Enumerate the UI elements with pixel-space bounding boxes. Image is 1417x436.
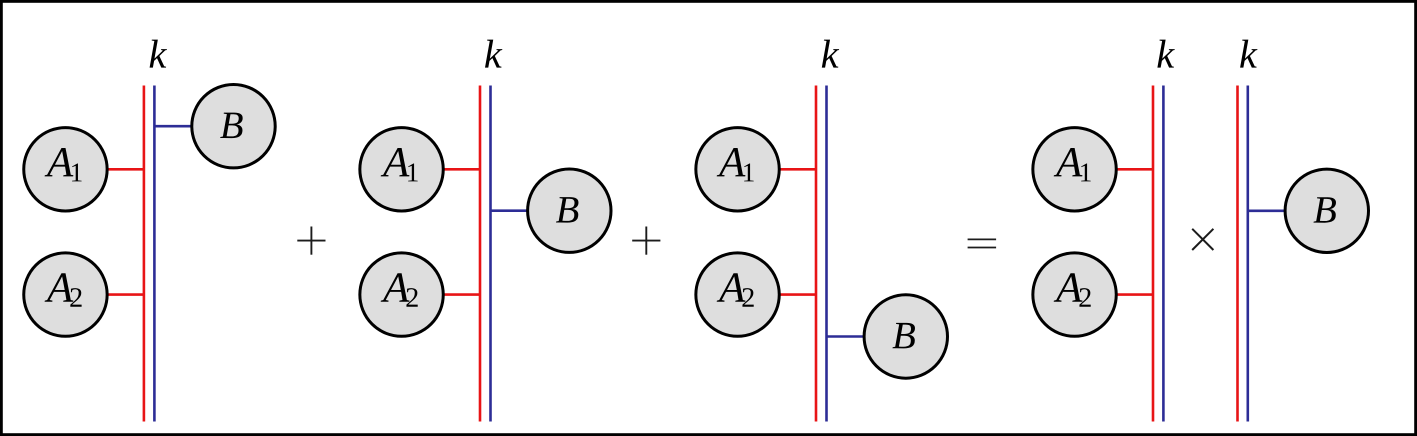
node B D4b — [1285, 169, 1368, 252]
node A1 D1 — [24, 128, 107, 211]
node A2 D3 — [696, 253, 779, 336]
label A2 D1 — [45, 273, 74, 301]
wire: blue stub B to bond D3 — [827, 335, 906, 338]
label A1 D1 — [45, 148, 74, 176]
wire: red vertical bond line D1 — [143, 86, 146, 422]
node A1 D2 — [360, 128, 443, 211]
label k D2 — [485, 40, 502, 68]
wire: red stub A2 to bond D3 — [738, 293, 816, 296]
wire: blue vertical bond line D4b — [1247, 86, 1250, 422]
node B D3 — [864, 295, 947, 378]
wire: red stub A1 to bond D3 — [738, 168, 816, 171]
label A1 D3 — [717, 148, 746, 176]
wire: red stub A2 to bond D4a — [1075, 293, 1153, 296]
node A2 D4a — [1033, 253, 1116, 336]
label B D2 — [556, 197, 578, 223]
wire: blue vertical bond line D1 — [153, 86, 156, 422]
wire: blue vertical bond line D3 — [825, 86, 828, 422]
node B D2 — [528, 169, 611, 252]
node A2 D1 — [24, 253, 107, 336]
label B D4b — [1313, 197, 1335, 223]
label k D4b — [1240, 40, 1257, 68]
label A2 D2 — [381, 273, 410, 301]
wire: red vertical bond line D4a — [1152, 86, 1155, 422]
wire: red vertical bond line D3 — [815, 86, 818, 422]
wire: red vertical bond line D4b — [1236, 86, 1239, 422]
node A1 D3 — [696, 128, 779, 211]
wire: red vertical bond line D2 — [479, 86, 482, 422]
operator times — [1192, 229, 1213, 250]
label k D4a — [1157, 40, 1174, 68]
node A2 D2 — [360, 253, 443, 336]
wire: red stub A2 to bond D2 — [402, 293, 480, 296]
label A1 D4a — [1054, 148, 1083, 176]
label A2 D4a — [1054, 273, 1083, 301]
label k D3 — [822, 40, 839, 68]
wire: blue vertical bond line D4a — [1162, 86, 1165, 422]
operator equals — [968, 239, 997, 247]
operator plus 1 — [297, 227, 325, 255]
operator plus 2 — [632, 227, 660, 255]
label B D3 — [892, 323, 914, 349]
node B D1 — [192, 85, 275, 168]
label B D1 — [220, 113, 242, 139]
wire: red stub A1 to bond D1 — [65, 168, 143, 171]
wire: blue stub B to bond D2 — [491, 209, 570, 212]
wire: red stub A1 to bond D4a — [1075, 168, 1153, 171]
wire: blue stub B to bond D4b — [1248, 210, 1327, 213]
label A1 D2 — [381, 148, 410, 176]
wire: red stub A2 to bond D1 — [65, 293, 143, 296]
label k D1 — [150, 40, 167, 68]
wire: blue stub B to bond D1 — [154, 125, 233, 128]
label A2 D3 — [717, 273, 746, 301]
wire: blue vertical bond line D2 — [489, 86, 492, 422]
node A1 D4a — [1033, 128, 1116, 211]
wire: red stub A1 to bond D2 — [402, 168, 480, 171]
